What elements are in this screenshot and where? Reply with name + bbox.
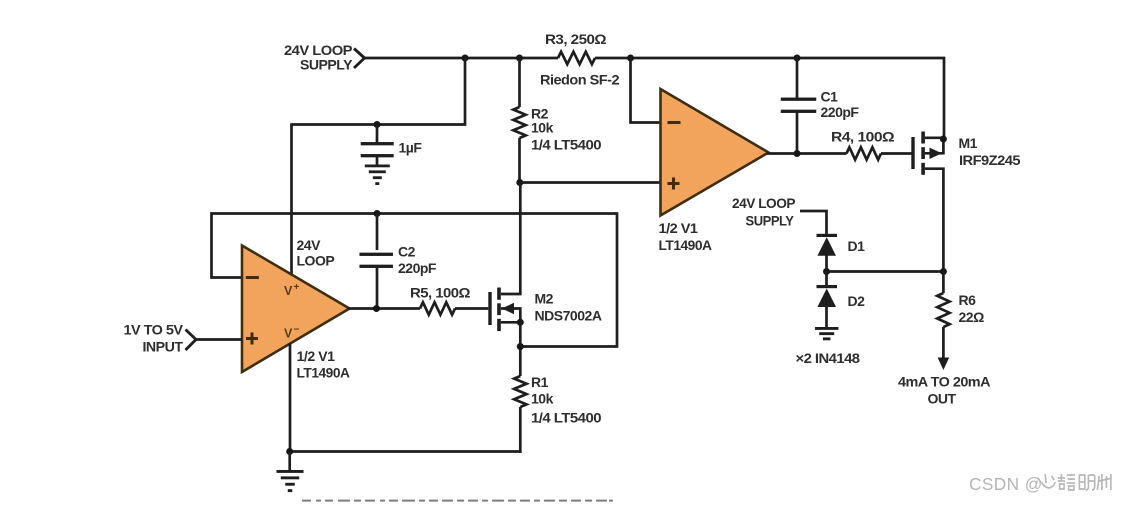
svg-text:D2: D2 [848, 293, 866, 309]
wire horizontal V+ feed (y=124.5) [292, 123, 467, 126]
op-amp U1 1/2 V1 LT1490A (left) [242, 246, 350, 373]
transistor M2 channel bars [497, 288, 501, 300]
wire U1 V- pin drop [289, 344, 292, 452]
transistor M2 drain stub (top) [501, 293, 522, 296]
pin marker plus (U2) [668, 182, 680, 185]
node junction M1 drain / R6 [940, 268, 947, 275]
wire R1 bottom lead [519, 407, 522, 453]
svg-text:4mA TO 20mA: 4mA TO 20mA [898, 374, 990, 390]
svg-text:SUPPLY: SUPPLY [300, 57, 353, 73]
diode D2 cathode bar [817, 285, 838, 288]
wire op-amp U1 V+ supply drop (x=291.5) [290, 123, 293, 274]
ground below 1uF [365, 165, 390, 168]
wire C1 top lead [796, 57, 799, 98]
svg-text:SUPPLY: SUPPLY [746, 213, 795, 229]
svg-text:−: − [294, 325, 300, 336]
wire op-amp U2 output [767, 152, 847, 155]
transistor M2 source stub (bottom) [501, 321, 521, 324]
capacitor C1 220pF [781, 98, 817, 101]
wire U1 output [348, 307, 420, 310]
svg-text:220pF: 220pF [398, 260, 437, 276]
svg-text:NDS7002A: NDS7002A [535, 308, 602, 324]
wire R6 top lead [942, 272, 945, 294]
wire bottom ground rail [289, 450, 522, 453]
transistor M1 channel bars [921, 132, 925, 144]
wire op-amp U2 minus input drop [631, 57, 662, 123]
wire top 24V rail left segment [365, 57, 559, 60]
svg-text:1µF: 1µF [399, 140, 423, 156]
transistor M2 NDS7002A gate bar [488, 292, 491, 325]
svg-text:R3, 250Ω: R3, 250Ω [545, 31, 606, 47]
node junction M1 source / 24V rail [940, 136, 947, 143]
node junction V+ feed / 1uF cap [374, 121, 381, 128]
wire 1uF cap bottom stub [376, 157, 379, 165]
svg-text:M1: M1 [959, 135, 978, 151]
svg-text:×2 IN4148: ×2 IN4148 [796, 350, 861, 366]
svg-text:1/4 LT5400: 1/4 LT5400 [531, 137, 602, 153]
wire R2 bottom lead to node [518, 138, 521, 184]
wire D1 anode to node [825, 254, 828, 273]
wire node to D2 cathode [825, 272, 828, 287]
svg-text:24V LOOP: 24V LOOP [732, 195, 795, 211]
ground below D2 [815, 327, 839, 330]
wire input to U1 plus [196, 338, 242, 341]
wire M2 drain riser (crosses feedback wire, no connect) [519, 183, 522, 295]
capacitor C2 220pF [359, 253, 393, 256]
svg-text:1V TO 5V: 1V TO 5V [124, 322, 184, 338]
transistor M2 body lead with arrow (points left) [501, 307, 520, 310]
diode D1 (points up) [817, 237, 836, 256]
node junction feedback / C2 top [374, 210, 381, 217]
wire C1 bottom lead [796, 113, 799, 156]
transistor M1 drain stub (bottom) and drain wire down [925, 169, 944, 273]
svg-text:R1: R1 [531, 374, 549, 390]
wire R4 to M1 gate [881, 152, 912, 155]
pin marker minus (U2) [668, 121, 681, 124]
svg-text:LOOP: LOOP [297, 253, 335, 269]
resistor R2 10k [513, 107, 525, 138]
svg-text:OUT: OUT [927, 391, 956, 407]
wire M2 source-body tie [519, 307, 522, 323]
wire op-amp U2 plus input (y=182.5) [520, 181, 661, 184]
wire D2 anode to ground [825, 306, 828, 328]
wire top 24V rail right segment with corner down to M1 source [595, 58, 944, 139]
svg-text:LT1490A: LT1490A [297, 365, 350, 381]
node junction top rail / R2 top [516, 55, 523, 62]
op-amp U2 1/2 V1 LT1490A (right) [661, 89, 769, 216]
wire ground stub below rail [288, 452, 291, 471]
svg-text:1/2 V1: 1/2 V1 [297, 348, 336, 364]
node output arrow (4mA-20mA OUT) [938, 358, 950, 371]
svg-text:D1: D1 [848, 238, 866, 254]
wire feedback loop (U1 minus to M2 source box) [212, 214, 618, 347]
svg-text:R5, 100Ω: R5, 100Ω [410, 285, 470, 301]
svg-text:INPUT: INPUT [143, 339, 184, 355]
node junction V- / ground rail [286, 448, 293, 455]
node junction U1 output / C2 bottom [373, 305, 380, 312]
wire M1 source-body tie [942, 138, 945, 155]
svg-text:IRF9Z245: IRF9Z245 [959, 152, 1021, 168]
svg-text:+: + [294, 282, 300, 293]
node junction top rail / C1 top [794, 55, 801, 62]
svg-text:24V: 24V [297, 237, 322, 253]
transistor M1 body lead with arrow (points right) [925, 152, 944, 155]
svg-text:10k: 10k [531, 391, 554, 407]
wire M2 source down to R1 [519, 322, 522, 376]
svg-text:10k: 10k [531, 120, 554, 136]
resistor R5 100 ohm [420, 302, 455, 314]
wire 1uF cap top lead [376, 125, 379, 143]
svg-text:22Ω: 22Ω [959, 309, 985, 325]
svg-text:C1: C1 [821, 89, 839, 105]
node 24V LOOP SUPPLY input terminal (chevron) [354, 49, 365, 69]
svg-text:1/2 V1: 1/2 V1 [659, 220, 699, 236]
pin marker minus (U1) [246, 276, 259, 279]
svg-text:R6: R6 [959, 292, 977, 308]
wire C2 bottom lead [376, 268, 379, 309]
svg-text:220pF: 220pF [821, 104, 860, 120]
node junction top rail / 1uF branch [462, 55, 469, 62]
node junction feedback tap / R1 top [517, 343, 524, 350]
svg-text:V: V [284, 327, 293, 341]
wire C2 top lead [376, 214, 379, 251]
pin marker plus (U1) [246, 337, 258, 340]
svg-text:R4, 100Ω: R4, 100Ω [831, 129, 894, 145]
node junction R2 bottom / op-amp U2 plus input / M2 drain [516, 179, 523, 186]
node junction U2 output / C1 bottom [794, 150, 801, 157]
wire supply stub to D1 [800, 211, 827, 235]
transistor M1 source stub (top) [925, 136, 945, 139]
node junction M2 source [517, 319, 524, 326]
decor cut-off caption text tops (bottom edge) [302, 500, 613, 502]
wire from top rail down to V+ feed line [464, 57, 467, 125]
svg-text:1/4 LT5400: 1/4 LT5400 [531, 410, 602, 426]
svg-text:Riedon SF-2: Riedon SF-2 [540, 72, 620, 88]
svg-text:LT1490A: LT1490A [659, 237, 712, 253]
diode D2 (points up) [817, 289, 836, 308]
wire R2 top lead [518, 57, 521, 107]
capacitor 1uF bypass [361, 142, 394, 145]
resistor R4 100 ohm [847, 147, 882, 159]
node junction D1/D2/output net [823, 268, 830, 275]
wire R5 to M2 gate [455, 307, 488, 310]
node junction top rail / op-amp U2 minus branch [627, 55, 634, 62]
svg-text:M2: M2 [535, 291, 554, 307]
svg-text:CSDN @: CSDN @ [969, 474, 1043, 494]
resistor R6 22 ohm [937, 293, 949, 327]
node 1V-5V input terminal (chevron) [186, 330, 197, 351]
svg-text:C2: C2 [398, 244, 416, 260]
svg-text:V: V [284, 284, 293, 298]
transistor M1 IRF9Z245 gate bar [911, 137, 914, 169]
ground below U1 [277, 470, 304, 473]
resistor R3 (250 ohm Riedon SF-2 shunt) [558, 52, 595, 64]
resistor R1 10k [514, 376, 526, 407]
wire R6 bottom lead to output arrow [942, 327, 945, 359]
diode D1 cathode bar [817, 234, 838, 237]
wire diode node to R6 node (y=271.5) [827, 270, 944, 273]
